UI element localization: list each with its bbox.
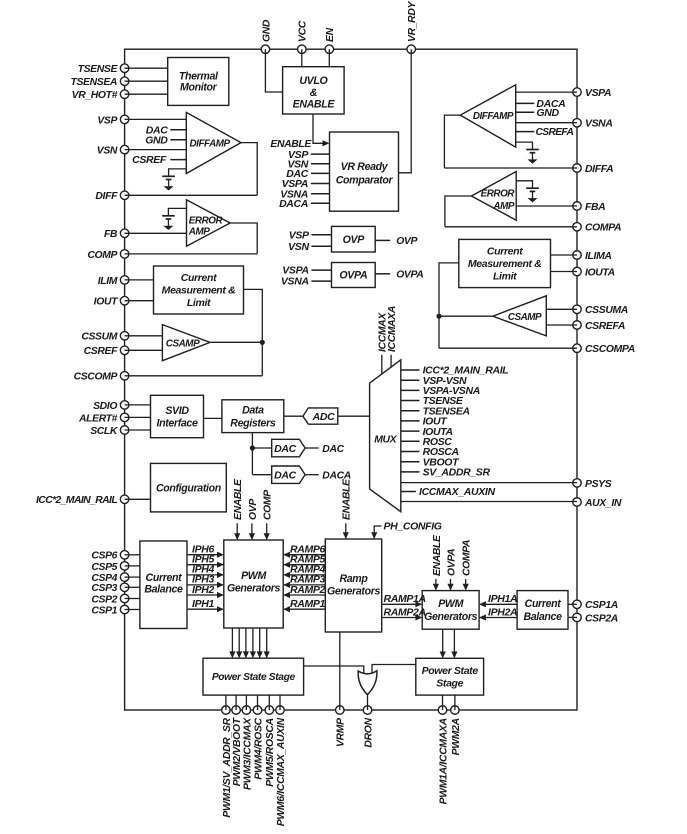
svg-text:ENABLE: ENABLE bbox=[342, 478, 353, 520]
wire Current Measurement right output loop bbox=[439, 263, 459, 348]
wire RAMP2A bbox=[382, 617, 422, 619]
wire DIFFA bbox=[444, 167, 577, 169]
wire Current Measurement right to IOUTA bbox=[551, 271, 578, 273]
wire ERROR AMP right output to COMPA bbox=[445, 196, 472, 227]
wire CSCOMP bbox=[125, 375, 263, 377]
wire SCLK to SVID Interface bbox=[125, 429, 151, 431]
op-amp CSAMP right bbox=[493, 296, 547, 336]
svg-text:Comparator: Comparator bbox=[336, 175, 394, 187]
input stub DAC of DIFFAMP bbox=[170, 129, 186, 131]
pin PWM2/VBOOT bbox=[232, 706, 241, 715]
svg-text:RAMP2A: RAMP2A bbox=[384, 606, 426, 618]
svg-text:PWM: PWM bbox=[438, 598, 464, 610]
mux input stub ICCMAX_AUXIN bbox=[401, 491, 416, 493]
svg-text:VSN: VSN bbox=[97, 146, 118, 157]
block Current Measurement & Limit left bbox=[154, 266, 244, 314]
input stub GND of DIFFAMP right bbox=[516, 111, 535, 113]
svg-text:Interface: Interface bbox=[156, 418, 197, 430]
block OVP bbox=[332, 226, 376, 252]
wire PWM Generators output 5 to Power State Stage bbox=[259, 628, 261, 657]
pin TSENSEA bbox=[120, 77, 129, 86]
svg-text:Monitor: Monitor bbox=[180, 82, 218, 94]
node junction DAC branch bbox=[250, 445, 255, 450]
svg-text:ILIMA: ILIMA bbox=[585, 251, 612, 262]
pin CSP4 bbox=[120, 573, 129, 582]
svg-text:VCC: VCC bbox=[298, 20, 309, 42]
node junction CSAMP right output bbox=[436, 314, 441, 319]
wire IPH2 bbox=[187, 594, 223, 596]
pin TSENSE bbox=[120, 64, 129, 73]
wire GND to UVLO bbox=[265, 49, 282, 92]
block Current Balance right bbox=[517, 591, 568, 630]
svg-text:VSN: VSN bbox=[288, 241, 309, 253]
capacitor-ground reference of DIFFAMP right bbox=[516, 141, 533, 143]
wire CSP6 to Current Balance bbox=[125, 554, 140, 556]
svg-text:Registers: Registers bbox=[230, 417, 276, 429]
svg-text:ENABLE: ENABLE bbox=[293, 99, 336, 111]
input stub VSPA of VR Ready Comparator bbox=[311, 183, 330, 185]
wire Power State Stage right to PWM1A pin bbox=[442, 695, 444, 710]
input stub CSREFA of DIFFAMP right bbox=[516, 131, 535, 133]
svg-text:Data: Data bbox=[242, 405, 264, 417]
pin SDIO bbox=[120, 401, 129, 410]
block Power State Stage left bbox=[203, 658, 304, 695]
wire AUX_IN to MUX bbox=[401, 501, 577, 503]
svg-text:COMP: COMP bbox=[263, 490, 274, 520]
mux input stub ROSCA bbox=[401, 451, 420, 453]
wire Power State Stage to PWM4 pin bbox=[257, 695, 259, 710]
svg-text:Limit: Limit bbox=[187, 297, 211, 309]
svg-text:ICCMAXA: ICCMAXA bbox=[387, 306, 398, 352]
wire EN to UVLO bbox=[328, 49, 330, 66]
mux input stub ROSC bbox=[401, 440, 420, 442]
wire DAC output bbox=[305, 447, 319, 449]
mux input stub TSENSE bbox=[401, 400, 420, 402]
svg-text:CSSUMA: CSSUMA bbox=[585, 305, 628, 316]
svg-text:Limit: Limit bbox=[493, 271, 517, 283]
input stub VSNA of VR Ready Comparator bbox=[311, 193, 330, 195]
pin CSP5 bbox=[120, 562, 129, 571]
pin DIFF bbox=[120, 191, 129, 200]
input stub VSN of VR Ready Comparator bbox=[311, 163, 330, 165]
svg-text:DAC: DAC bbox=[274, 443, 296, 455]
wire ADC to MUX bbox=[338, 415, 370, 417]
mux input stub ICC*2_MAIN_RAIL bbox=[401, 369, 420, 371]
svg-text:COMP: COMP bbox=[87, 250, 117, 261]
pin FBA bbox=[573, 202, 582, 211]
pin PWM3/ICCMAX bbox=[242, 706, 251, 715]
svg-text:FBA: FBA bbox=[585, 202, 605, 213]
pin CSP1A bbox=[573, 600, 582, 609]
pin CSP6 bbox=[120, 551, 129, 560]
svg-text:CSCOMP: CSCOMP bbox=[74, 372, 118, 383]
op-amp DIFFAMP right bbox=[460, 85, 515, 147]
svg-text:PWM1A/ICCMAXA: PWM1A/ICCMAXA bbox=[438, 718, 449, 804]
wire VSNA to DIFFAMP right bbox=[516, 122, 577, 124]
pin COMP bbox=[120, 250, 129, 259]
pin ICC*2_MAIN_RAIL bbox=[120, 495, 129, 504]
wire COMPA bbox=[445, 226, 577, 228]
svg-text:CSP2: CSP2 bbox=[91, 594, 117, 605]
wire CSP2 to Current Balance bbox=[125, 598, 140, 600]
svg-text:VR_HOT#: VR_HOT# bbox=[72, 90, 118, 101]
converter DACA bbox=[272, 466, 305, 483]
svg-text:OVPA: OVPA bbox=[339, 270, 367, 282]
svg-text:OVP: OVP bbox=[248, 499, 259, 520]
wire CSP4 to Current Balance bbox=[125, 576, 140, 578]
wire PWM Generators output 1 to Power State Stage bbox=[231, 628, 233, 657]
wire VR Ready Comparator output to VR_RDY bbox=[399, 49, 412, 173]
wire VSP to DIFFAMP bbox=[125, 118, 187, 120]
svg-text:Current: Current bbox=[181, 272, 217, 284]
svg-text:Ramp: Ramp bbox=[339, 573, 368, 585]
wire PWM Generators output 6 to Power State Stage bbox=[266, 628, 268, 657]
svg-text:OVP: OVP bbox=[343, 234, 366, 246]
svg-text:SDIO: SDIO bbox=[93, 401, 117, 412]
pin CSCOMP bbox=[120, 372, 129, 381]
svg-text:SCLK: SCLK bbox=[90, 426, 119, 437]
svg-text:Power State: Power State bbox=[422, 665, 479, 677]
pin PWM5/ROSCA bbox=[265, 706, 274, 715]
wire VCC to UVLO bbox=[301, 49, 303, 66]
svg-text:IOUTA: IOUTA bbox=[585, 267, 615, 278]
input stub VSNA of OVPA bbox=[311, 280, 331, 282]
pin DRON bbox=[363, 706, 372, 715]
pin IOUTA bbox=[573, 267, 582, 276]
pin PSYS bbox=[573, 479, 582, 488]
svg-text:CSP5: CSP5 bbox=[91, 562, 117, 573]
pin CSSUMA bbox=[573, 305, 582, 314]
wire CSSUM to CSAMP bbox=[125, 335, 163, 337]
svg-text:OVP: OVP bbox=[396, 236, 417, 247]
signal arrow COMP into PWM Generators bbox=[266, 523, 268, 539]
mux input stub IOUTA bbox=[401, 430, 420, 432]
signal arrow ENABLE into PWM Generators right bbox=[435, 579, 437, 590]
op-amp ERROR AMP right bbox=[471, 172, 516, 221]
wire PWM Generators output 3 to Power State Stage bbox=[245, 628, 247, 657]
svg-text:CSP1A: CSP1A bbox=[585, 600, 618, 611]
wire RAMP3 bbox=[284, 584, 325, 586]
pin VSP bbox=[120, 115, 129, 124]
block OVPA bbox=[332, 263, 376, 288]
svg-text:ENABLE: ENABLE bbox=[432, 534, 443, 576]
svg-text:AMP: AMP bbox=[188, 226, 210, 237]
gate OR to DRON bbox=[358, 671, 377, 695]
input stub VSPA of OVPA bbox=[311, 269, 331, 271]
input stub CSREF of DIFFAMP bbox=[170, 159, 186, 161]
svg-text:ERROR: ERROR bbox=[481, 188, 516, 199]
wire CSP1A to Current Balance right bbox=[568, 603, 577, 605]
pin VSN bbox=[120, 145, 129, 154]
pin CSP3 bbox=[120, 583, 129, 592]
wire ICC*2_MAIN_RAIL to Configuration bbox=[125, 498, 151, 500]
pin VCC bbox=[298, 45, 307, 54]
wire CSCOMPA bbox=[439, 347, 577, 349]
wire CSAMP output bbox=[210, 341, 262, 343]
op-amp DIFFAMP left bbox=[186, 112, 241, 173]
wire Ramp Generators to VRMP bbox=[339, 632, 341, 710]
block Power State Stage right bbox=[416, 658, 484, 695]
svg-text:GND: GND bbox=[145, 134, 168, 146]
mux input stub IOUT bbox=[401, 420, 420, 422]
wire RAMP1 bbox=[284, 608, 325, 610]
svg-text:DIFFA: DIFFA bbox=[585, 164, 613, 175]
block VR Ready Comparator bbox=[330, 132, 399, 211]
svg-text:PWM2A: PWM2A bbox=[451, 718, 462, 755]
svg-text:IPH1A: IPH1A bbox=[488, 593, 517, 605]
wire RAMP4 bbox=[284, 574, 325, 576]
pin CSCOMPA bbox=[573, 344, 582, 353]
svg-text:Balance: Balance bbox=[144, 584, 183, 596]
svg-text:FB: FB bbox=[104, 229, 118, 240]
wire FBA to ERROR AMP right bbox=[516, 205, 577, 207]
svg-text:Balance: Balance bbox=[523, 611, 562, 623]
svg-text:AUX_IN: AUX_IN bbox=[584, 498, 622, 509]
pin ILIM bbox=[120, 276, 129, 285]
svg-text:EN: EN bbox=[325, 27, 336, 42]
wire Current Measurement output bbox=[244, 289, 263, 375]
wire PWM Generators output 4 to Power State Stage bbox=[252, 628, 254, 657]
wire TSENSE to Thermal Monitor bbox=[125, 67, 168, 69]
wire IPH4 bbox=[187, 574, 223, 576]
wire VSN to DIFFAMP bbox=[125, 149, 187, 151]
wire IPH5 bbox=[187, 564, 223, 566]
svg-text:AMP: AMP bbox=[492, 201, 514, 212]
wire DIFFAMP right output to DIFFA bbox=[444, 115, 460, 168]
svg-text:Generators: Generators bbox=[327, 586, 380, 598]
mux input stub TSENSEA bbox=[401, 410, 420, 412]
svg-text:Current: Current bbox=[525, 598, 562, 610]
wire RAMP2 bbox=[284, 594, 325, 596]
node junction CSAMP output bbox=[260, 340, 265, 345]
wire RAMP6 bbox=[284, 554, 325, 556]
wire branch to DAC bbox=[252, 447, 271, 449]
svg-text:DAC: DAC bbox=[322, 444, 344, 455]
wire CSREFA to CSAMP right bbox=[546, 324, 577, 326]
block SVID Interface bbox=[151, 395, 204, 437]
input stub VSN of OVP bbox=[311, 245, 331, 247]
block Configuration bbox=[151, 463, 227, 512]
block Thermal Monitor bbox=[168, 58, 229, 106]
svg-text:CSREF: CSREF bbox=[132, 154, 167, 166]
svg-text:TSENSEA: TSENSEA bbox=[70, 77, 117, 88]
pin IOUT bbox=[120, 296, 129, 305]
svg-text:ENABLE: ENABLE bbox=[233, 478, 244, 520]
wire SVID Interface to Data Registers bbox=[204, 417, 222, 419]
svg-text:PWM5/ROSCA: PWM5/ROSCA bbox=[265, 718, 276, 787]
mux input stub SV_ADDR_SR bbox=[401, 471, 420, 473]
svg-text:COMPA: COMPA bbox=[585, 223, 621, 234]
svg-text:DACA: DACA bbox=[279, 198, 308, 210]
signal PH_CONFIG into Ramp Generators bbox=[374, 526, 381, 538]
svg-text:PWM4/ROSC: PWM4/ROSC bbox=[253, 717, 264, 779]
svg-text:COMPA: COMPA bbox=[462, 540, 473, 576]
svg-text:DIFFAMP: DIFFAMP bbox=[473, 111, 514, 122]
capacitor-ground reference of DIFFAMP bbox=[169, 168, 187, 170]
mux input stub VBOOT bbox=[401, 461, 420, 463]
capacitor-ground reference of ERROR AMP bbox=[168, 207, 186, 209]
svg-text:DIFF: DIFF bbox=[95, 191, 118, 202]
input stub GND of DIFFAMP bbox=[170, 139, 186, 141]
svg-text:ICCMAX_AUXIN: ICCMAX_AUXIN bbox=[419, 486, 495, 498]
wire OVPA output bbox=[375, 273, 390, 275]
pin VRMP bbox=[336, 706, 345, 715]
wire Power State Stage to PWM2 pin bbox=[235, 695, 237, 710]
svg-text:VSP: VSP bbox=[97, 115, 117, 126]
pin VR_RDY bbox=[407, 45, 416, 54]
wire IPH1A bbox=[480, 603, 517, 605]
wire COMP bbox=[125, 253, 258, 255]
svg-text:UVLO: UVLO bbox=[299, 75, 328, 87]
multiplexer MUX bbox=[370, 360, 401, 512]
svg-text:CSP3: CSP3 bbox=[91, 583, 117, 594]
svg-text:PSYS: PSYS bbox=[585, 479, 612, 490]
wire Power State Stage to PWM5 pin bbox=[268, 695, 270, 710]
wire ALERT# to SVID Interface bbox=[125, 416, 151, 418]
svg-text:DRON: DRON bbox=[363, 717, 374, 747]
svg-text:IPH1: IPH1 bbox=[192, 598, 214, 610]
input stub DACA of DIFFAMP right bbox=[516, 102, 535, 104]
wire PWM Generators output 2 to Power State Stage bbox=[238, 628, 240, 657]
svg-text:CSAMP: CSAMP bbox=[166, 338, 200, 349]
svg-text:VRMP: VRMP bbox=[336, 718, 347, 747]
block Current Measurement & Limit right bbox=[459, 239, 551, 287]
svg-text:IOUT: IOUT bbox=[94, 297, 119, 308]
svg-text:TSENSE: TSENSE bbox=[78, 64, 119, 75]
wire OVP output bbox=[375, 239, 390, 241]
pin CSP2A bbox=[573, 613, 582, 622]
op-amp ERROR AMP left bbox=[187, 200, 231, 246]
wire VSPA to DIFFAMP right bbox=[516, 91, 577, 93]
pin FB bbox=[120, 229, 129, 238]
svg-text:ALERT#: ALERT# bbox=[78, 413, 118, 424]
wire Data Registers to DACs bbox=[251, 433, 253, 475]
svg-text:PH_CONFIG: PH_CONFIG bbox=[384, 521, 442, 533]
pin EN bbox=[325, 45, 334, 54]
svg-text:VSNA: VSNA bbox=[281, 276, 309, 288]
pin PWM1A/ICCMAXA bbox=[438, 706, 447, 715]
wire Power State Stage to PWM1 pin bbox=[225, 695, 227, 710]
svg-text:GND: GND bbox=[536, 107, 559, 119]
svg-text:SV_ADDR_SR: SV_ADDR_SR bbox=[423, 467, 491, 479]
pin ALERT# bbox=[120, 413, 129, 422]
wire MUX to PSYS bbox=[401, 482, 577, 484]
svg-text:OVPA: OVPA bbox=[396, 269, 423, 280]
input stub VSP of VR Ready Comparator bbox=[311, 153, 330, 155]
converter DAC bbox=[272, 439, 305, 457]
pin VSPA bbox=[573, 88, 582, 97]
pin PWM2A bbox=[451, 706, 460, 715]
svg-text:Generators: Generators bbox=[424, 611, 477, 623]
wire branch to DACA converter bbox=[252, 474, 271, 476]
svg-text:CSP6: CSP6 bbox=[91, 551, 117, 562]
wire CSP1 to Current Balance bbox=[125, 609, 140, 611]
svg-text:Stage: Stage bbox=[436, 678, 463, 690]
wire TSENSEA to Thermal Monitor bbox=[125, 80, 168, 82]
pin AUX_IN bbox=[573, 498, 582, 507]
wire ILIM to Current Measurement bbox=[125, 279, 154, 281]
wire DIFFAMP output to DIFF bbox=[241, 143, 257, 196]
pin CSSUM bbox=[120, 332, 129, 341]
svg-text:PWM: PWM bbox=[241, 570, 267, 582]
svg-text:CSREF: CSREF bbox=[84, 346, 118, 357]
signal arrow COMPA into PWM Generators right bbox=[465, 579, 467, 590]
wire Data Registers to ADC bbox=[284, 415, 303, 417]
wire Power State Stage right to PWM2A pin bbox=[454, 695, 456, 710]
wire RAMP5 bbox=[284, 564, 325, 566]
wire DIFF bbox=[125, 194, 258, 196]
signal arrow ENABLE into Ramp Generators bbox=[345, 523, 347, 538]
svg-text:CSP2A: CSP2A bbox=[585, 613, 618, 624]
svg-text:Current: Current bbox=[487, 246, 523, 258]
svg-text:ICC*2_MAIN_RAIL: ICC*2_MAIN_RAIL bbox=[36, 495, 117, 506]
converter ADC bbox=[303, 408, 338, 424]
wire PWM Generators right output 1 to Power State Stage right bbox=[442, 629, 444, 657]
pin GND bbox=[261, 45, 270, 54]
pin COMPA bbox=[573, 223, 582, 232]
mux input stub VSP-VSN bbox=[401, 379, 420, 381]
block Ramp Generators bbox=[325, 539, 381, 632]
svg-text:VSP: VSP bbox=[289, 229, 310, 241]
pin CSREFA bbox=[573, 321, 582, 330]
pin PWM4/ROSC bbox=[253, 706, 262, 715]
svg-text:MUX: MUX bbox=[374, 434, 397, 445]
wire CSP3 to Current Balance bbox=[125, 586, 140, 588]
wire Power State Stage to PWM3 pin bbox=[245, 695, 247, 710]
svg-text:RAMP2: RAMP2 bbox=[290, 584, 326, 596]
mux top input ICCMAX bbox=[381, 355, 383, 375]
input stub VSP of OVP bbox=[311, 234, 331, 236]
op-amp CSAMP left bbox=[162, 325, 210, 361]
svg-text:PWM6/ICCMAX_AUXIN: PWM6/ICCMAX_AUXIN bbox=[276, 717, 287, 826]
wire PWM Generators right output 2 to Power State Stage right bbox=[453, 629, 455, 657]
wire IPH2A bbox=[480, 617, 517, 619]
wire Power State Stage right to OR gate bbox=[372, 665, 416, 674]
wire IPH6 bbox=[187, 554, 223, 556]
svg-text:ADC: ADC bbox=[312, 411, 335, 423]
wire CSREF to CSAMP bbox=[125, 349, 163, 351]
pin SCLK bbox=[120, 426, 129, 435]
mux top input ICCMAXA bbox=[390, 355, 392, 368]
mux input stub VSPA-VSNA bbox=[401, 389, 420, 391]
wire Power State Stage to PWM6 pin bbox=[279, 695, 281, 710]
pin DIFFA bbox=[573, 164, 582, 173]
block Current Balance left bbox=[140, 541, 187, 629]
wire IOUT to Current Measurement bbox=[125, 300, 154, 302]
svg-text:Current: Current bbox=[146, 572, 183, 584]
svg-text:DIFFAMP: DIFFAMP bbox=[190, 138, 231, 149]
svg-text:CSAMP: CSAMP bbox=[508, 312, 542, 323]
wire CSP2A to Current Balance right bbox=[568, 616, 577, 618]
wire DACA output bbox=[305, 474, 319, 476]
block UVLO & ENABLE U1 bbox=[283, 67, 345, 114]
svg-text:VSNA: VSNA bbox=[585, 119, 612, 130]
svg-text:VSPA: VSPA bbox=[585, 88, 611, 99]
wire CSP5 to Current Balance bbox=[125, 565, 140, 567]
pin PWM6/ICCMAX_AUXIN bbox=[276, 706, 285, 715]
wire SDIO to SVID Interface bbox=[125, 404, 151, 406]
chip boundary bbox=[125, 49, 577, 710]
signal arrow OVP into PWM Generators bbox=[251, 523, 253, 539]
capacitor-ground reference of ERROR AMP right bbox=[516, 180, 532, 182]
pin VSNA bbox=[573, 119, 582, 128]
block PWM Generators right bbox=[422, 591, 479, 630]
svg-text:ERROR: ERROR bbox=[189, 215, 224, 226]
svg-text:Measurement &: Measurement & bbox=[162, 285, 236, 297]
svg-text:RAMP1: RAMP1 bbox=[290, 598, 326, 610]
svg-text:ILIM: ILIM bbox=[98, 276, 118, 287]
signal arrow OVPA into PWM Generators right bbox=[450, 579, 452, 590]
